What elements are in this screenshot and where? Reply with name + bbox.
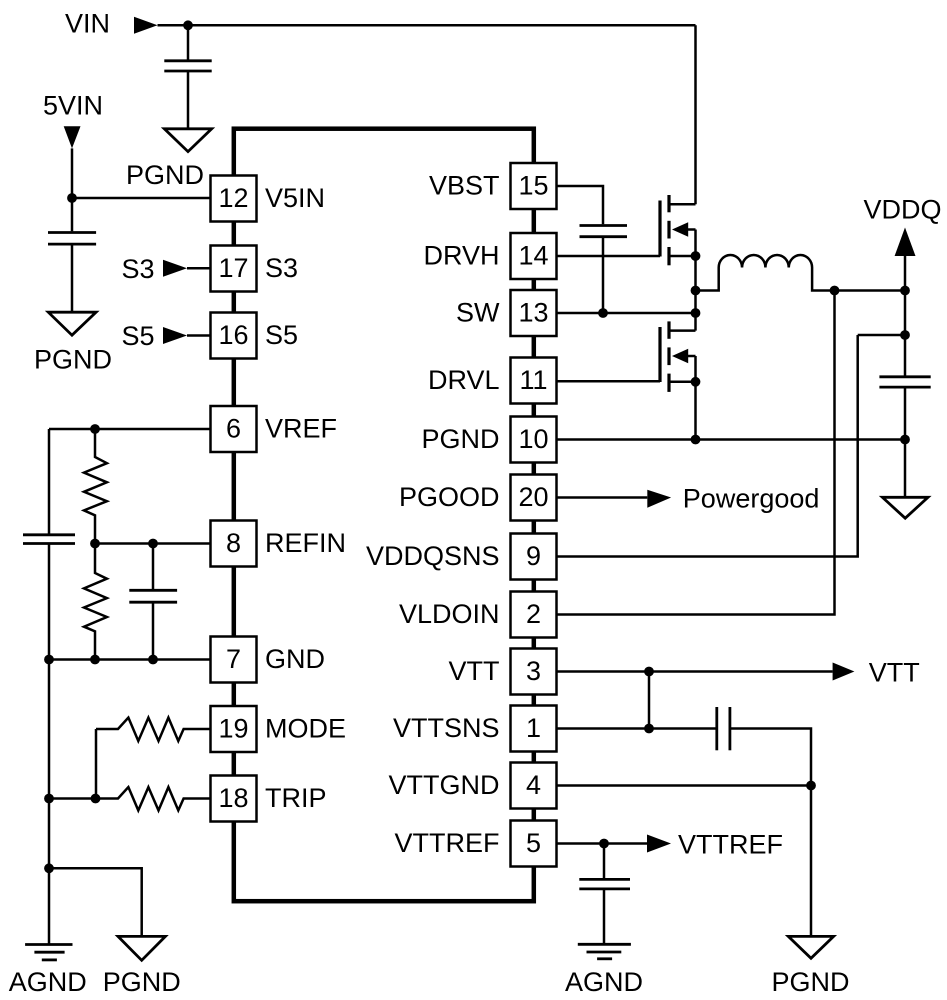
pin 2 box: [511, 592, 557, 638]
ground PGND (VIN cap): [164, 129, 211, 152]
svg-text:S3: S3: [121, 254, 154, 284]
node bootstrap/SW junction: [598, 308, 608, 318]
svg-text:8: 8: [226, 528, 241, 558]
svg-text:DRVL: DRVL: [428, 365, 500, 395]
input arrow VIN: [134, 17, 158, 34]
wire VTTGND pin 4: [557, 784, 812, 787]
svg-text:SW: SW: [456, 297, 500, 327]
ground AGND (bottom middle): [578, 944, 631, 959]
svg-text:PGND: PGND: [771, 967, 849, 997]
svg-text:VLDOIN: VLDOIN: [399, 599, 500, 629]
pin 10 box: [511, 417, 557, 463]
input arrow 5VIN: [64, 126, 81, 148]
pin numbers and names: [218, 170, 548, 858]
node output cap / PGND wire: [900, 435, 910, 445]
wire REFIN cap top lead: [152, 544, 155, 590]
wire SW pin 13: [557, 312, 696, 315]
pin 5 box: [511, 821, 557, 867]
svg-text:REFIN: REFIN: [265, 528, 346, 558]
node R2/GND junction: [90, 655, 100, 665]
resistor R3 (MODE): [96, 718, 211, 741]
wire VIN cap bottom lead: [187, 71, 190, 129]
svg-text:5: 5: [526, 828, 541, 858]
svg-text:VTT: VTT: [449, 656, 500, 686]
output arrow VTTREF: [647, 835, 671, 853]
svg-text:AGND: AGND: [9, 967, 87, 997]
svg-text:PGOOD: PGOOD: [399, 482, 500, 512]
svg-text:V5IN: V5IN: [265, 183, 325, 213]
node VDDQ rail junction: [900, 286, 910, 296]
svg-text:14: 14: [518, 240, 548, 270]
input arrow S3: [163, 260, 187, 277]
pin 4 box: [511, 763, 557, 809]
svg-text:20: 20: [518, 482, 548, 512]
svg-text:7: 7: [226, 644, 241, 674]
wire VIN top rail: [158, 24, 696, 27]
wire VDDQ node: [835, 289, 906, 292]
svg-text:VTTREF: VTTREF: [395, 828, 500, 858]
wire Q1 source to SW node: [694, 256, 697, 331]
svg-text:Powergood: Powergood: [683, 483, 820, 513]
pin 6 box: [211, 406, 257, 452]
input arrow S5: [163, 327, 187, 344]
output arrow Powergood: [647, 490, 671, 508]
node VDDQSNS tap: [900, 330, 910, 340]
node inductor/VLDOIN junction: [830, 286, 840, 296]
transistor Q2 (low-side NFET): [660, 321, 696, 392]
svg-text:4: 4: [526, 770, 541, 800]
wire Q2 source to PGND wire: [694, 382, 697, 440]
ground PGND (bottom left): [118, 936, 165, 960]
node VTTGND junction: [806, 781, 816, 791]
svg-text:GND: GND: [265, 644, 325, 674]
svg-text:19: 19: [218, 713, 248, 743]
node Q1 source: [691, 251, 701, 261]
wire bootstrap cap to SW: [602, 237, 605, 313]
svg-text:17: 17: [218, 253, 248, 283]
wire left rail upper (VREF to cap): [48, 429, 51, 534]
wire 5VIN drop: [71, 148, 74, 198]
capacitor C5 (bootstrap): [580, 226, 628, 237]
wire VTTREF pin 5: [557, 842, 648, 845]
svg-text:VDDQ: VDDQ: [863, 195, 941, 225]
svg-text:S5: S5: [265, 320, 298, 350]
capacitor C3 (VREF filter): [23, 535, 75, 544]
wire VREF pin 6 to left rail: [49, 428, 211, 431]
wire REFIN cap bottom lead: [152, 602, 155, 659]
node TRIP/left rail junction: [44, 794, 54, 804]
resistor R4 (TRIP): [49, 787, 211, 810]
capacitor C7 (VTT): [717, 707, 730, 750]
wire left rail (GND to TRIP): [48, 660, 51, 799]
output arrow VDDQ: [895, 228, 916, 257]
pin 9 box: [511, 534, 557, 580]
node REFIN/resistor junction: [90, 539, 100, 549]
node Q2 source: [691, 377, 701, 387]
svg-text:VDDQSNS: VDDQSNS: [366, 541, 500, 571]
ground PGND (5VIN cap): [48, 312, 96, 335]
ground PGND (output cap): [882, 497, 928, 518]
inductor L1: [696, 255, 835, 291]
wire VDDQSNS top link: [858, 334, 905, 337]
svg-text:13: 13: [518, 297, 548, 327]
capacitor C2 (5VIN input): [48, 233, 96, 245]
node VTTREF junction: [599, 839, 609, 849]
node SW/inductor junction: [691, 286, 701, 296]
wire VIN cap top lead: [187, 25, 190, 59]
svg-text:PGND: PGND: [103, 967, 181, 997]
wire branch to PGND: [49, 868, 142, 936]
wire 5VIN to pin 12: [72, 197, 211, 200]
wire DRVH pin 14 to Q1 gate: [557, 255, 661, 258]
svg-text:3: 3: [526, 656, 541, 686]
node MODE/TRIP junction: [91, 794, 101, 804]
node cap/GND junction: [148, 655, 158, 665]
pin 18 box: [211, 776, 257, 822]
wire left rail lower (cap to GND wire): [48, 544, 51, 660]
svg-text:15: 15: [518, 170, 548, 200]
svg-text:AGND: AGND: [565, 967, 643, 997]
node VREF/resistor junction: [90, 424, 100, 434]
pin 15 box: [511, 163, 557, 209]
svg-text:18: 18: [218, 783, 248, 813]
svg-text:VBST: VBST: [429, 170, 500, 200]
pin 11 box: [511, 358, 557, 404]
pin boxes left: [211, 163, 557, 867]
svg-text:12: 12: [218, 183, 248, 213]
resistor R1 (VREF-REFIN): [84, 429, 107, 544]
wire VTT pin 3: [557, 670, 833, 673]
transistor Q1 (high-side NFET): [660, 195, 696, 265]
wire VDDQ rail down to cap: [904, 291, 907, 376]
wire VDDQ rail up: [904, 254, 907, 291]
IC U1 body: [234, 129, 534, 902]
wire PGND pin 10: [557, 438, 906, 441]
wire VLDOIN pin 2: [557, 291, 835, 615]
svg-text:1: 1: [526, 713, 541, 743]
wire S3 to pin 17: [187, 267, 211, 270]
node GND/left rail junction: [44, 655, 54, 665]
capacitor C6 (output): [879, 377, 930, 387]
wire VIN drain drop: [694, 25, 697, 204]
pin 16 box: [211, 313, 257, 359]
pin 12 box: [211, 176, 257, 222]
node PGND/FET junction: [691, 435, 701, 445]
pin 8 box: [211, 521, 257, 567]
resistor R2 (REFIN-GND): [84, 544, 107, 660]
wire VTTREF cap bottom lead: [603, 889, 606, 944]
svg-text:MODE: MODE: [265, 713, 346, 743]
wire GND pin 7 to left rail: [49, 658, 211, 661]
wire VBST pin 15: [557, 186, 604, 224]
capacitor C1 (VIN input): [164, 61, 211, 71]
wire output cap bottom: [904, 387, 907, 497]
pin 17 box: [211, 246, 257, 292]
svg-text:2: 2: [526, 599, 541, 629]
wire VTT cap to PGND rail: [730, 729, 811, 937]
pin 3 box: [511, 649, 557, 695]
svg-text:S3: S3: [265, 253, 298, 283]
wire left rail (TRIP to AGND): [48, 799, 51, 945]
svg-text:VTTSNS: VTTSNS: [393, 713, 500, 743]
node 5VIN junction: [67, 193, 77, 203]
svg-text:16: 16: [218, 320, 248, 350]
pin 13 box: [511, 290, 557, 336]
svg-text:6: 6: [226, 413, 241, 443]
wire MODE drop: [95, 729, 98, 799]
svg-text:VTT: VTT: [869, 657, 920, 687]
svg-text:S5: S5: [121, 321, 154, 351]
ground AGND (left): [25, 945, 72, 960]
wire 5VIN cap top lead: [71, 198, 74, 231]
wire VDDQSNS pin 9: [557, 335, 858, 557]
node SW pin junction: [691, 308, 701, 318]
wire REFIN pin 8: [95, 542, 211, 545]
svg-text:PGND: PGND: [126, 160, 204, 190]
svg-text:11: 11: [519, 365, 547, 395]
wire DRVL pin 11 to Q2 gate: [557, 380, 661, 383]
wire VTT to VTTSNS link: [648, 672, 651, 729]
pin 14 box: [511, 233, 557, 279]
svg-text:VTTGND: VTTGND: [389, 770, 500, 800]
node REFIN/cap junction: [148, 539, 158, 549]
svg-text:DRVH: DRVH: [423, 240, 499, 270]
svg-text:VTTREF: VTTREF: [678, 829, 783, 859]
wire VTTSNS pin 1: [557, 727, 717, 730]
node VIN junction: [183, 20, 193, 30]
svg-text:VREF: VREF: [265, 413, 337, 443]
wire PGOOD pin 20: [557, 496, 648, 499]
capacitor C4 (REFIN filter): [129, 590, 177, 602]
node AGND branch junction: [44, 863, 54, 873]
pin 7 box: [211, 637, 257, 683]
output arrow VTT: [833, 663, 855, 681]
wire S5 to pin 16: [187, 334, 211, 337]
svg-text:9: 9: [526, 541, 541, 571]
svg-text:VIN: VIN: [65, 9, 110, 39]
svg-text:5VIN: 5VIN: [43, 91, 103, 121]
svg-text:PGND: PGND: [421, 424, 499, 454]
ground PGND (bottom right): [788, 936, 833, 958]
node VTTSNS junction: [644, 724, 654, 734]
svg-text:TRIP: TRIP: [265, 783, 327, 813]
pin 19 box: [211, 706, 257, 752]
wire 5VIN cap bottom lead: [71, 244, 74, 312]
wire VTTREF cap top lead: [603, 844, 606, 879]
capacitor C8 (VTTREF): [579, 879, 630, 889]
pin 20 box: [511, 475, 557, 521]
node VTT junction: [644, 667, 654, 677]
pin 1 box: [511, 706, 557, 752]
svg-text:10: 10: [518, 424, 548, 454]
svg-text:PGND: PGND: [34, 344, 112, 374]
